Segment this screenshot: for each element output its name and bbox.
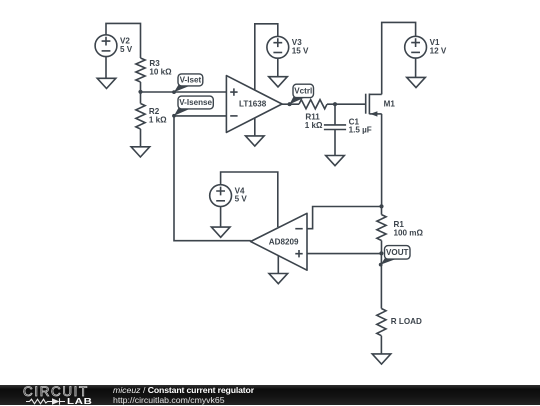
resistor R LOAD bbox=[377, 309, 422, 354]
wire AD8209 output up to op-amp - input bbox=[174, 116, 251, 241]
net flag V-Iset bbox=[172, 74, 203, 94]
logo diode triangle bbox=[52, 398, 60, 405]
ground below V3 bbox=[269, 58, 288, 87]
wire AD8209 + input to VOUT node bbox=[307, 253, 381, 255]
svg-text:100 mΩ: 100 mΩ bbox=[394, 229, 424, 238]
node: Vctrl on output wire bbox=[288, 102, 292, 106]
node: VOUT junction bbox=[379, 251, 383, 255]
logo resistor-diode glyph bbox=[26, 398, 65, 405]
node: R1 top / AD8209 - input bbox=[379, 204, 383, 208]
svg-text:1 kΩ: 1 kΩ bbox=[305, 121, 323, 130]
transistor M1 NMOS bbox=[366, 94, 396, 117]
svg-text:10 kΩ: 10 kΩ bbox=[149, 68, 172, 77]
svg-text:V-Iset: V-Iset bbox=[180, 76, 202, 85]
net flag V-Isense bbox=[172, 96, 213, 118]
voltage source V1 bbox=[405, 36, 427, 58]
svg-text:R LOAD: R LOAD bbox=[391, 317, 422, 326]
resistor R1 100m bbox=[377, 207, 424, 254]
capacitor C1 1.5uF bbox=[324, 104, 372, 155]
ground below LT1638 V- pin bbox=[246, 118, 265, 146]
ground below V1 bbox=[407, 58, 426, 88]
CircuitLab wordmark bbox=[23, 386, 89, 398]
svg-text:Vctrl: Vctrl bbox=[294, 87, 312, 96]
wire AD8209 - input to R1 top node bbox=[307, 207, 382, 229]
svg-text:M1: M1 bbox=[384, 99, 396, 108]
svg-text:5 V: 5 V bbox=[235, 195, 248, 204]
svg-text:LT1638: LT1638 bbox=[239, 100, 267, 109]
wire node to M1 gate bbox=[335, 103, 366, 105]
LAB bold bbox=[67, 396, 92, 406]
wire M1 drain to V1 bbox=[382, 22, 416, 94]
svg-text:AD8209: AD8209 bbox=[269, 238, 299, 247]
svg-text:V-Isense: V-Isense bbox=[179, 98, 212, 107]
op-amp U1 LT1638 bbox=[226, 76, 282, 133]
wire V4 to AD8209 V+ pin bbox=[221, 172, 278, 227]
svg-text:1 kΩ: 1 kΩ bbox=[149, 115, 167, 124]
ground below AD8209 V- pin bbox=[269, 256, 288, 284]
svg-text:VOUT: VOUT bbox=[386, 248, 409, 257]
node: R11/C1/gate junction bbox=[333, 102, 337, 106]
op-amp U2 AD8209 (facing left) bbox=[251, 213, 307, 270]
ground below R2 bbox=[131, 147, 150, 157]
wire V2 top to R3 top bbox=[106, 23, 141, 53]
ground below R LOAD bbox=[372, 354, 391, 364]
wire LT1638 output to R11 bbox=[282, 103, 299, 105]
footer bar bbox=[0, 385, 540, 405]
voltage source V3 bbox=[267, 36, 289, 58]
voltage source V2 bbox=[95, 35, 117, 57]
resistor R3 10k bbox=[136, 53, 172, 92]
node: R3/R2/op-amp+ junction bbox=[138, 90, 142, 94]
svg-text:1.5 µF: 1.5 µF bbox=[349, 126, 372, 135]
wire op-amp - input bbox=[174, 115, 226, 117]
wire VOUT node down to R LOAD bbox=[380, 253, 382, 308]
ground below V2 bbox=[97, 57, 116, 89]
svg-text:12 V: 12 V bbox=[430, 46, 447, 55]
svg-text:5 V: 5 V bbox=[120, 45, 133, 54]
attribution text bbox=[113, 386, 254, 406]
ground below V4 bbox=[211, 207, 230, 238]
svg-text:R1: R1 bbox=[394, 220, 405, 229]
net flag VOUT bbox=[379, 246, 410, 267]
resistor R2 1k bbox=[136, 92, 167, 147]
wire LT1638 V+ pin to V3 bbox=[255, 24, 278, 90]
resistor R11 1k bbox=[299, 100, 335, 130]
voltage source V4 bbox=[210, 185, 232, 207]
svg-text:15 V: 15 V bbox=[292, 46, 309, 55]
wire node to op-amp + input bbox=[141, 91, 227, 93]
ground below C1 bbox=[326, 156, 345, 166]
wire M1 source down rail bbox=[381, 114, 383, 207]
net flag Vctrl bbox=[288, 84, 314, 106]
